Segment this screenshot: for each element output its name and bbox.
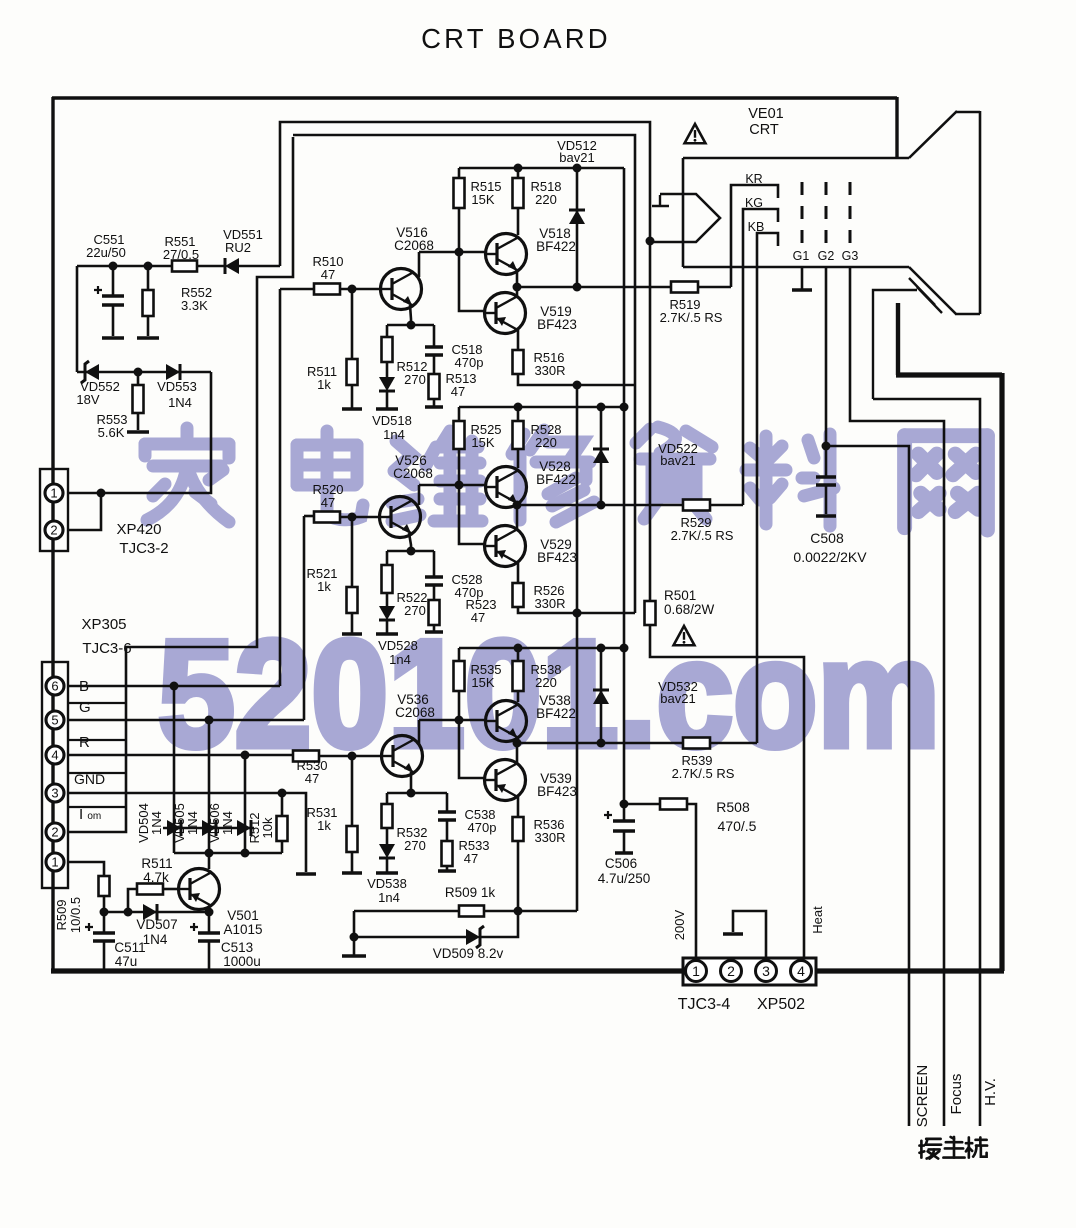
transistor V501 A1015 — [179, 869, 220, 910]
wire input R — [68, 754, 293, 757]
svg-text:SCREEN: SCREEN — [914, 1065, 931, 1128]
svg-text:I om: I om — [79, 806, 101, 823]
ground C551 — [102, 336, 124, 340]
wire XP420 pin2 — [68, 493, 101, 530]
capacitor C528 — [425, 577, 443, 585]
svg-text:R: R — [79, 734, 90, 751]
junction emitter node 52 — [407, 547, 416, 556]
ground R523 — [425, 630, 443, 634]
CRT neck left edge — [682, 158, 685, 267]
ground GND line — [296, 872, 316, 876]
resistor R519 body — [671, 282, 698, 293]
svg-text:15K: 15K — [471, 435, 494, 450]
junction emitter bus 51 — [573, 381, 582, 390]
svg-text:3: 3 — [51, 786, 58, 801]
svg-text:2: 2 — [50, 523, 57, 538]
wire base lead V526 — [340, 516, 381, 519]
wire emitter/collector join stage 53 — [516, 737, 519, 764]
wire G riser to R520 — [304, 515, 314, 518]
resistor R512(10k) body — [277, 816, 288, 841]
junction R512 top — [278, 789, 287, 798]
ground R553 — [127, 430, 149, 434]
ground VD528 — [376, 632, 398, 636]
svg-text:2: 2 — [51, 825, 58, 840]
resistor R511 4.7k — [128, 889, 137, 912]
junction G clamp — [205, 716, 214, 725]
wire R501 to heater pin — [650, 625, 804, 958]
wire stage bottom 51 — [518, 374, 635, 385]
node line C551/R551 — [77, 265, 172, 268]
transistor V529 BF423 — [485, 526, 526, 567]
wire C551 node down to zener row — [76, 266, 79, 372]
resistor R509(10/0.5) body — [99, 876, 110, 896]
clamp bottom row — [174, 852, 282, 855]
wire G2 to SCREEN — [826, 267, 909, 1126]
wire output to cathode 51 — [698, 286, 731, 289]
svg-text:H.V.: H.V. — [982, 1078, 999, 1106]
resistor R523 body — [429, 600, 440, 625]
resistor R531 body — [347, 826, 358, 852]
resistor R553 — [137, 372, 140, 385]
svg-text:1n4: 1n4 — [378, 890, 400, 905]
KG cathode lead — [743, 209, 778, 505]
watermark chinese characters row — [145, 427, 987, 530]
svg-text:330R: 330R — [534, 596, 565, 611]
svg-text:BF423: BF423 — [537, 784, 577, 799]
svg-text:1k: 1k — [317, 377, 331, 392]
CRT neck top line — [683, 157, 909, 160]
svg-text:4.7u/250: 4.7u/250 — [598, 871, 651, 886]
junction VD51 top — [573, 164, 582, 173]
wire supply rail stage 53 — [459, 647, 624, 650]
wire output stage 52 — [517, 504, 683, 507]
svg-text:15K: 15K — [471, 675, 494, 690]
resistor R535 body — [454, 661, 465, 691]
svg-text:VD509 8.2v: VD509 8.2v — [433, 946, 504, 961]
resistor R513 body — [429, 374, 440, 399]
svg-text:TJC3-4: TJC3-4 — [678, 996, 731, 1013]
capacitor C518 — [425, 347, 443, 355]
junction output diode 51 — [573, 283, 582, 292]
svg-text:VD528: VD528 — [378, 638, 418, 653]
wire R515 top — [458, 168, 461, 178]
svg-text:1N4: 1N4 — [143, 932, 168, 947]
svg-text:R501: R501 — [664, 588, 696, 603]
resistor R551 — [172, 261, 197, 272]
resistor R521 — [351, 517, 354, 587]
junction R521 top — [348, 513, 357, 522]
wire G3 to Focus — [850, 267, 944, 1126]
pin 2 XP420 — [45, 521, 63, 539]
wire zener row to XP420 — [68, 372, 211, 493]
diode VD553 — [166, 364, 180, 380]
transistor V519 BF423 — [485, 293, 526, 334]
zener VD509 line — [354, 911, 518, 937]
capacitor C506 — [623, 804, 626, 820]
wire output to cathode 52 — [710, 504, 743, 507]
svg-text:bav21: bav21 — [559, 150, 594, 165]
svg-text:47u: 47u — [115, 954, 138, 969]
resistor R512 10k — [281, 793, 284, 816]
resistor R538 body — [513, 661, 524, 691]
wire emitter V536 — [410, 772, 413, 793]
svg-text:R509: R509 — [54, 899, 69, 930]
anode inner lead — [873, 290, 917, 399]
capacitor C513 — [208, 912, 211, 932]
svg-text:4: 4 — [797, 963, 805, 979]
junction output left 53 — [513, 739, 522, 748]
svg-text:VD553: VD553 — [157, 379, 197, 394]
svg-text:A1015: A1015 — [223, 922, 262, 937]
junction C551 top — [109, 262, 118, 271]
bias line with VD507 — [104, 911, 209, 914]
wire R518 leads — [517, 168, 520, 235]
resistor R509 10/0.5 — [68, 862, 104, 876]
ground bracket XP502 — [733, 911, 766, 958]
pin 1 XP502 — [686, 961, 707, 982]
svg-text:G2: G2 — [818, 249, 835, 263]
pin 3 XP305 — [46, 784, 64, 802]
svg-text:1N4: 1N4 — [168, 395, 192, 410]
wire input B — [68, 289, 280, 686]
junction R536 bottom — [514, 907, 523, 916]
svg-text:1k: 1k — [317, 579, 331, 594]
resistor R553 body — [133, 385, 144, 413]
amplifier enclosure line — [293, 135, 635, 385]
wire output to cathode 53 — [710, 742, 757, 745]
warning triangle R501 — [674, 626, 695, 645]
resistor R512 chain — [386, 325, 389, 337]
diode VD506 — [237, 820, 251, 836]
svg-text:470p: 470p — [468, 820, 497, 835]
resistor R536 — [517, 796, 520, 817]
ground R552 — [137, 336, 159, 340]
junction bus rail2 — [620, 403, 629, 412]
wire heater drop to R501 — [649, 241, 652, 601]
svg-text:XP420: XP420 — [116, 521, 161, 538]
resistor R528 body — [513, 421, 524, 449]
wire emitter V516 — [410, 305, 411, 325]
label ledger lines XP305 — [68, 703, 126, 807]
diode VD505 — [202, 820, 216, 836]
svg-text:3: 3 — [762, 963, 770, 979]
wire output stage 53 — [517, 742, 683, 745]
transistor V536 C2068 — [382, 736, 423, 777]
grid G3 dashed electrode — [849, 182, 852, 244]
svg-text:VE01: VE01 — [748, 106, 783, 122]
junction R552 top — [144, 262, 153, 271]
transistor V518 BF422 — [486, 234, 527, 275]
svg-text:18V: 18V — [76, 392, 99, 407]
pin 1 XP305 — [46, 853, 64, 871]
wire G clamp drop — [208, 720, 211, 853]
svg-text:2.7K/.5 RS: 2.7K/.5 RS — [660, 310, 723, 325]
svg-text:C2068: C2068 — [395, 705, 435, 720]
svg-text:2: 2 — [727, 963, 735, 979]
anode contact slashes — [909, 278, 942, 313]
svg-text:220: 220 — [535, 435, 557, 450]
diode VD504 — [167, 820, 181, 836]
resistor R511(4.7k) body — [137, 884, 163, 895]
wire emitter branch row 53 — [387, 792, 447, 795]
wire R525 top — [458, 407, 461, 421]
ground R533 — [438, 869, 456, 873]
wire base node stage 52 — [419, 449, 487, 544]
svg-text:XP502: XP502 — [757, 996, 805, 1013]
junction R clamp — [241, 751, 250, 760]
wire collector riser V536 — [418, 720, 421, 744]
svg-text:270: 270 — [404, 603, 426, 618]
zener VD509 — [466, 926, 484, 948]
svg-text:4: 4 — [51, 748, 58, 763]
junction bus rail3 — [620, 644, 629, 653]
wire B clamp drop — [173, 686, 176, 853]
wire emitter return bus x=577 — [518, 385, 577, 911]
board outline bottom border (thick) — [51, 968, 1004, 973]
svg-text:470/.5: 470/.5 — [718, 818, 757, 834]
board outline left border — [51, 97, 54, 972]
wire VD551 to riser — [239, 265, 280, 268]
junction output left 52 — [513, 501, 522, 510]
svg-text:C508: C508 — [810, 530, 844, 546]
diode VD538 — [379, 844, 395, 858]
junction B clamp — [170, 682, 179, 691]
ground R513 — [425, 405, 443, 409]
svg-text:BF422: BF422 — [536, 472, 576, 487]
diode VD532 wire — [600, 648, 603, 743]
ground VD538 — [376, 871, 398, 875]
resistor R516 body — [513, 350, 524, 374]
wire supply rail stage 51 — [459, 167, 624, 170]
svg-text:200V: 200V — [672, 909, 687, 940]
resistor R533 body — [442, 841, 453, 866]
wire base lead V536 — [319, 755, 381, 758]
clamp diode row — [163, 827, 254, 830]
svg-text:220: 220 — [535, 675, 557, 690]
pin 5 XP305 — [46, 711, 64, 729]
pin 6 XP305 — [46, 677, 64, 695]
svg-text:VD507: VD507 — [136, 917, 177, 932]
svg-text:Focus: Focus — [948, 1074, 965, 1115]
junction base node 52 — [455, 481, 464, 490]
junction R511 left — [124, 908, 133, 917]
CRT funnel top edge — [956, 111, 980, 114]
junction emitter node 51 — [407, 321, 416, 330]
resistor R532 chain — [386, 793, 389, 804]
capacitor C511 — [103, 912, 106, 932]
wire enclosure/emitter link x=635 — [634, 385, 637, 613]
capacitor C528 chain — [433, 551, 436, 577]
CRT neck bottom line — [683, 266, 909, 269]
zener row wire — [77, 371, 211, 374]
pin 2 XP502 — [721, 961, 742, 982]
svg-text:C511: C511 — [114, 940, 145, 955]
svg-text:1: 1 — [51, 855, 58, 870]
svg-text:470p: 470p — [455, 355, 484, 370]
svg-text:C513: C513 — [221, 940, 253, 955]
resistor R536 body — [513, 817, 524, 841]
resistor R539 body — [683, 738, 710, 749]
resistor R552 body — [143, 290, 154, 316]
wire input GND — [68, 793, 306, 872]
svg-text:RU2: RU2 — [225, 240, 251, 255]
svg-text:47: 47 — [321, 495, 335, 510]
svg-text:1n4: 1n4 — [383, 427, 405, 442]
svg-text:XP305: XP305 — [81, 616, 126, 633]
svg-text:1N4: 1N4 — [220, 811, 235, 835]
grid G2 dashed electrode — [825, 182, 828, 244]
board outline jog horizontal (thick) — [896, 372, 1002, 377]
svg-text:22u/50: 22u/50 — [86, 245, 126, 260]
transistor V538 BF422 — [486, 701, 527, 742]
resistor R518 body — [513, 178, 524, 208]
svg-text:1: 1 — [692, 963, 700, 979]
resistor R520 body — [314, 512, 340, 523]
junction emitter node 53 — [407, 789, 416, 798]
svg-text:0.0022/2KV: 0.0022/2KV — [793, 549, 867, 565]
svg-text:R511: R511 — [141, 856, 172, 871]
transistor V516 C2068 — [381, 269, 422, 310]
connector XP502 body — [683, 958, 816, 985]
svg-text:330R: 330R — [534, 830, 565, 845]
wire R551 to VD551 — [197, 265, 225, 268]
diode VD528 — [379, 606, 395, 620]
wire VD509 left leg — [353, 911, 356, 955]
junction VD53 top — [597, 644, 606, 653]
svg-text:G3: G3 — [842, 249, 859, 263]
resistor R509 1k — [354, 910, 459, 913]
wire 200V bus x=624 — [623, 168, 626, 804]
junction R509 bottom — [100, 908, 109, 917]
ground C508 — [816, 514, 836, 518]
capacitor C551 — [112, 266, 115, 295]
wire input G — [68, 516, 304, 720]
junction 200V node — [620, 800, 629, 809]
svg-text:CRT BOARD: CRT BOARD — [421, 23, 611, 54]
transistor V539 BF423 — [485, 760, 526, 801]
KB cathode lead — [757, 233, 778, 743]
resistor R511 body — [347, 359, 358, 385]
wire collector riser V526 — [418, 485, 421, 505]
pin 2 XP305 — [46, 823, 64, 841]
junction C508 top — [822, 442, 831, 451]
svg-text:G: G — [79, 699, 91, 716]
ground R521 — [342, 632, 362, 636]
svg-text:VD518: VD518 — [372, 413, 412, 428]
svg-text:TJC3-6: TJC3-6 — [82, 640, 131, 657]
svg-text:47: 47 — [471, 610, 485, 625]
resistor R526 body — [513, 583, 524, 607]
resistor R525 body — [454, 421, 465, 449]
svg-text:10/0.5: 10/0.5 — [68, 897, 83, 933]
svg-text:47: 47 — [451, 384, 465, 399]
diode VD518 — [379, 377, 395, 391]
capacitor C518 chain — [433, 325, 436, 347]
svg-text:270: 270 — [404, 372, 426, 387]
wire emitter/collector join stage 51 — [516, 270, 519, 297]
wire collector riser V516 — [418, 252, 421, 277]
junction XP420 pin2 wire — [97, 489, 106, 498]
resistor R501 body — [645, 601, 656, 625]
svg-text:5: 5 — [51, 713, 58, 728]
svg-text:G1: G1 — [793, 249, 810, 263]
junction R531 top — [348, 752, 357, 761]
svg-text:330R: 330R — [534, 363, 565, 378]
svg-text:6: 6 — [51, 679, 58, 694]
board outline top border — [52, 96, 897, 99]
KR cathode lead — [731, 185, 778, 287]
svg-text:1N4: 1N4 — [149, 811, 164, 835]
svg-text:2.7K/.5 RS: 2.7K/.5 RS — [672, 766, 735, 781]
diode VD532 — [593, 690, 609, 704]
svg-text:1: 1 — [50, 486, 57, 501]
resistor R515 body — [454, 178, 465, 208]
wire emitter V526 — [409, 533, 411, 551]
svg-text:bav21: bav21 — [660, 453, 695, 468]
electron gun — [650, 194, 720, 242]
svg-text:C2068: C2068 — [393, 466, 433, 481]
heater supply wire from VD551 up and across — [280, 122, 650, 266]
svg-text:10k: 10k — [260, 817, 275, 838]
pin 3 XP502 — [756, 961, 777, 982]
board outline right border lower segment — [896, 303, 900, 375]
grid G1 dashed electrode — [801, 182, 804, 244]
resistor R522 body — [382, 565, 393, 593]
ground R511 — [342, 407, 362, 411]
wire base node stage 53 — [419, 691, 487, 778]
board outline far-right vertical (thick) — [999, 373, 1004, 971]
connector XP420 body — [40, 469, 68, 551]
resistor R510 body — [314, 284, 340, 295]
svg-text:47: 47 — [321, 267, 335, 282]
connector XP305 body — [42, 662, 68, 888]
ground XP502 — [723, 932, 743, 936]
ground G1 — [792, 288, 812, 292]
resistor R508 body — [660, 799, 687, 810]
svg-text:BF423: BF423 — [537, 317, 577, 332]
wire supply rail stage 52 — [459, 406, 624, 409]
resistor R532 body — [382, 804, 393, 828]
junction emitter bus 52 — [573, 609, 582, 618]
capacitor C508 — [825, 446, 828, 476]
junction clamp R — [241, 849, 250, 858]
wire input Iom (shield return) — [68, 137, 293, 832]
svg-text:0.68/2W: 0.68/2W — [664, 602, 715, 617]
board outline right border upper — [895, 97, 898, 159]
pin 1 XP420 — [45, 484, 63, 502]
junction V501 emitter — [205, 908, 214, 917]
ground VD518 — [376, 407, 398, 411]
wire stage bottom 52 — [518, 607, 635, 613]
svg-text:BF422: BF422 — [536, 239, 576, 254]
diode VD522 — [593, 449, 609, 463]
ground R531 — [342, 871, 362, 875]
CRT funnel right edge — [979, 111, 982, 314]
junction R553 top — [134, 368, 143, 377]
ground VD509 — [342, 954, 366, 958]
wire V501 collector — [208, 853, 211, 869]
svg-text:CRT: CRT — [749, 122, 779, 138]
pin 4 XP305 — [46, 746, 64, 764]
svg-text:47: 47 — [464, 851, 478, 866]
wire R clamp drop — [244, 755, 247, 853]
resistor R531 — [351, 756, 354, 826]
junction VD52 top — [597, 403, 606, 412]
junction R5218 top — [514, 403, 523, 412]
G1 ground stub — [801, 267, 804, 289]
capacitor C538 chain — [446, 793, 449, 812]
resistor R512 body — [382, 337, 393, 362]
